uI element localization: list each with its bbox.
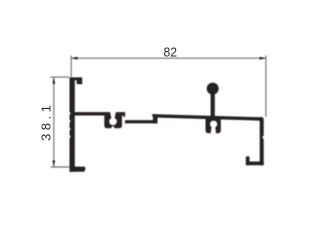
clip left throat gap: [110, 112, 115, 118]
profile top flange lip: [77, 77, 83, 84]
arrowhead left of 82: [71, 57, 77, 60]
dimension line 38.1: [53, 77, 55, 167]
profile bottom bar right: [246, 162, 264, 166]
svg-text:38.1: 38.1: [39, 102, 54, 141]
right wall notch: [263, 136, 266, 139]
extension line top (38.1): [50, 76, 69, 78]
profile riser: [153, 114, 158, 123]
extension line right (82): [265, 55, 267, 117]
left wall serration notch 3: [67, 128, 70, 131]
extension line left (82): [70, 55, 72, 77]
svg-text:82: 82: [164, 45, 178, 60]
profile long sloping web: [153, 114, 262, 121]
profile short band: [115, 112, 125, 115]
profile clip block left: [104, 113, 122, 128]
extension line bottom (38.1): [51, 166, 70, 168]
profile ball: [207, 83, 219, 95]
profile bottom foot: [70, 167, 86, 172]
clip right hole: [210, 121, 217, 128]
clip left hole: [109, 118, 117, 126]
profile riser beak: [152, 114, 153, 117]
profile main arm: [74, 112, 110, 115]
left wall serration notch 2: [67, 120, 70, 123]
arrowhead right of 82: [260, 57, 266, 60]
profile ball stem: [211, 89, 215, 118]
profile top flange: [70, 77, 83, 80]
left wall serration notch 4: [67, 135, 70, 138]
clip right throat gap: [210, 126, 216, 134]
profile right wall: [260, 117, 264, 165]
profile lower web: [125, 120, 158, 123]
profile left vertical wall: [70, 77, 75, 171]
left wall serration notch 1: [67, 112, 70, 115]
dimension line 82: [71, 57, 266, 59]
profile bottom hook: [246, 156, 250, 165]
arrowhead bottom of 38.1: [52, 160, 55, 166]
profile clip block right: [206, 117, 221, 133]
arrowhead top of 38.1: [52, 77, 55, 83]
clip left bottom notch: [111, 126, 114, 131]
profile band tab: [123, 112, 125, 117]
